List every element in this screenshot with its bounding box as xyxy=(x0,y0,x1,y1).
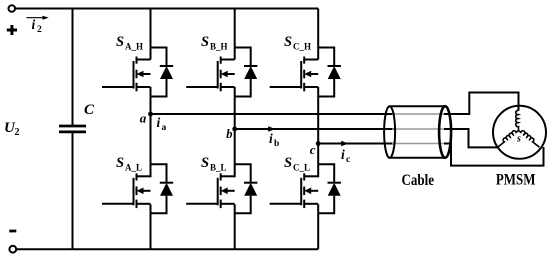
svg-text:b: b xyxy=(226,127,232,141)
leg B source lead wire xyxy=(234,204,236,249)
svg-text:i: i xyxy=(32,17,36,32)
PMSM stator circle xyxy=(493,106,546,159)
svg-text:i: i xyxy=(157,115,161,130)
svg-text:Cable: Cable xyxy=(402,172,435,189)
terminal + (DC positive input) xyxy=(9,5,16,12)
leg C drain lead wire xyxy=(317,9,319,60)
svg-text:B_H: B_H xyxy=(210,42,228,52)
label S_B_H xyxy=(201,34,228,52)
svg-text:S: S xyxy=(116,155,124,171)
phase c wire to motor xyxy=(444,144,544,166)
diode D_B_L xyxy=(235,164,258,213)
transistor S_C_L xyxy=(270,173,319,208)
leg B drain lead wire xyxy=(234,9,236,60)
cable left ellipse xyxy=(384,106,395,158)
phase c wire xyxy=(318,143,395,145)
cable conductor a (gray) xyxy=(392,113,444,115)
transistor S_B_L xyxy=(186,173,235,208)
node c junction dot xyxy=(316,141,321,146)
diode D_B_H xyxy=(235,48,258,97)
bottom rail wire xyxy=(16,248,318,250)
phase b wire to motor xyxy=(444,129,499,147)
i_b label xyxy=(269,131,279,149)
plus sign xyxy=(7,25,17,35)
capacitor C wire top xyxy=(72,9,74,127)
capacitor C plates xyxy=(59,125,86,128)
leg A source lead wire xyxy=(150,204,152,249)
label S_A_L xyxy=(116,155,142,173)
cable top line xyxy=(390,105,446,107)
cable right ellipse xyxy=(439,106,451,158)
capacitor C wire bottom xyxy=(72,132,74,249)
winding phase c (lower-right) xyxy=(519,128,542,147)
diode D_A_L xyxy=(151,164,174,213)
label S_B_L xyxy=(201,155,227,173)
transistor S_A_L xyxy=(102,173,151,208)
cable bottom line xyxy=(390,157,446,159)
diode D_A_H xyxy=(151,48,174,97)
svg-text:B_L: B_L xyxy=(210,163,227,173)
i2 arrow xyxy=(26,16,48,20)
node b junction dot xyxy=(232,127,237,132)
transistor S_A_H xyxy=(102,57,151,92)
svg-text:c: c xyxy=(346,155,350,165)
svg-text:C_L: C_L xyxy=(293,163,310,173)
label S_C_H xyxy=(284,34,311,52)
winding phase a (top) xyxy=(516,110,519,130)
leg C source lead wire xyxy=(317,204,319,249)
svg-text:i: i xyxy=(341,147,345,162)
svg-text:C_H: C_H xyxy=(293,42,311,52)
svg-text:S: S xyxy=(284,155,292,171)
phase b wire xyxy=(235,128,395,130)
svg-text:A_H: A_H xyxy=(125,42,143,52)
cable conductor c (gray) xyxy=(392,143,444,145)
phase a wire xyxy=(151,113,396,115)
minus sign xyxy=(9,230,16,233)
leg B mid lead wire xyxy=(234,87,236,177)
i_a label xyxy=(157,115,167,133)
cable conductor b (gray) xyxy=(392,128,444,130)
svg-text:c: c xyxy=(310,142,316,157)
node a junction dot xyxy=(148,112,153,117)
winding phase b (lower-left) xyxy=(496,128,519,147)
svg-text:i: i xyxy=(269,131,273,146)
svg-text:2: 2 xyxy=(15,127,20,138)
svg-text:a: a xyxy=(140,110,147,125)
i_c label xyxy=(341,147,350,165)
svg-text:2: 2 xyxy=(37,25,42,35)
svg-text:b: b xyxy=(274,139,279,149)
svg-text:a: a xyxy=(162,123,167,133)
leg A drain lead wire xyxy=(150,9,152,60)
leg C mid lead wire xyxy=(317,87,319,177)
svg-text:A_L: A_L xyxy=(125,163,142,173)
label S_A_H xyxy=(116,34,143,52)
svg-text:s: s xyxy=(516,134,521,145)
svg-text:S: S xyxy=(201,155,209,171)
svg-text:S: S xyxy=(201,34,209,50)
diode D_C_L xyxy=(318,164,341,213)
i_c current arrow xyxy=(341,141,348,147)
svg-text:PMSM: PMSM xyxy=(496,172,536,189)
leg A mid lead wire xyxy=(150,87,152,177)
svg-text:C: C xyxy=(84,102,95,118)
transistor S_B_H xyxy=(186,57,235,92)
phase a wire to motor xyxy=(444,93,519,115)
diode D_C_H xyxy=(318,48,341,97)
terminal - (DC negative input) xyxy=(9,246,16,253)
top rail wire xyxy=(15,8,318,10)
label S_C_L xyxy=(284,155,310,173)
svg-text:S: S xyxy=(116,34,124,50)
transistor S_C_H xyxy=(270,57,319,92)
svg-text:S: S xyxy=(284,34,292,50)
i_b current arrow xyxy=(268,126,275,132)
